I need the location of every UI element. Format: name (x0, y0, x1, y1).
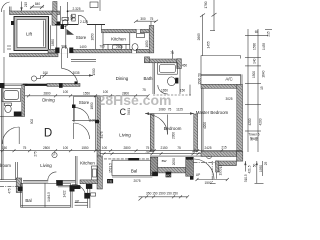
door leaf bath D (77, 15, 79, 24)
svg-text:150: 150 (180, 89, 186, 93)
wall hatched segment right (47, 83, 80, 86)
door leaf upper (73, 108, 75, 122)
bathtub C inner (159, 64, 175, 72)
stair right post black blocks (186, 157, 193, 160)
bath C (top) left wall (129, 33, 131, 49)
svg-text:Tower 6: Tower 6 (248, 133, 259, 137)
dim tick x214 (212, 13, 217, 17)
dim line y153.7 (100, 153, 232, 155)
svg-text:WO: WO (166, 173, 172, 177)
bay window L corner (216, 161, 219, 172)
svg-text:1550: 1550 (81, 146, 88, 150)
svg-text:Living: Living (40, 163, 52, 168)
kitchen D left wall (75, 156, 77, 185)
dim ticks mid (27, 94, 150, 97)
svg-text:1650: 1650 (91, 33, 95, 40)
post at balcony D door (56, 181, 63, 186)
bath D WC tank (5, 103, 12, 106)
svg-text:UP: UP (75, 200, 79, 204)
balcony D right edge (70, 183, 72, 207)
dim line vertical x202.5 top-right (202, 15, 204, 57)
right wall lower stub (237, 152, 243, 162)
svg-text:Master Bedroom: Master Bedroom (196, 110, 229, 115)
store D corner post (75, 81, 78, 84)
wire corridor line b right of lift (56, 25, 58, 47)
centerline dash-dot stair (194, 162, 231, 164)
svg-text:350 150 1500 150 250: 350 150 1500 150 250 (146, 192, 178, 196)
junction dot (67, 10, 69, 12)
bedroom C door leaf (167, 115, 169, 135)
kitchen door arc (73, 184, 86, 196)
store top room: posts at left (61, 25, 65, 29)
svg-text:Kitchen: Kitchen (80, 160, 95, 165)
svg-text:75: 75 (150, 17, 154, 21)
store left wall (65, 25, 67, 49)
svg-text:421.5: 421.5 (248, 165, 252, 173)
dark box above stair D (86, 184, 92, 189)
right bottom dim lines (244, 161, 246, 172)
stair D right wall (87, 184, 89, 208)
svg-text:F: F (54, 153, 56, 157)
svg-text:310.5: 310.5 (244, 174, 248, 182)
svg-text:15: 15 (260, 86, 264, 90)
svg-text:2665: 2665 (197, 33, 201, 40)
WO black box (166, 172, 172, 178)
store bottom left wall (73, 96, 75, 121)
AC room left wall (200, 56, 202, 85)
svg-text:第6座: 第6座 (250, 136, 259, 141)
stair D treads (75, 202, 88, 204)
corridor wall right (101, 25, 103, 30)
svg-text:1500: 1500 (92, 68, 96, 75)
dim tick 300/75 right (154, 20, 158, 23)
svg-text:1950: 1950 (259, 165, 263, 172)
svg-text:1850: 1850 (51, 39, 55, 46)
svg-text:215: 215 (24, 2, 28, 8)
door tag circle (31, 76, 36, 81)
door arc bath D (78, 15, 87, 24)
curved stair arc (194, 159, 214, 179)
svg-text:4200: 4200 (248, 118, 252, 125)
grid bubble F (52, 152, 57, 157)
lift shaft outer wall (14, 17, 49, 51)
store bottom top wall (74, 95, 97, 97)
stair left post hatched (150, 157, 158, 175)
kitchen top wall hatched (102, 29, 154, 32)
bedroom D window wall bottom (0, 179, 17, 181)
wire left edge vertical line (3, 10, 5, 53)
svg-text:2.325: 2.325 (73, 7, 81, 11)
svg-text:450: 450 (182, 64, 188, 68)
svg-text:1950: 1950 (219, 168, 223, 175)
door arc lower (living C) (74, 123, 90, 139)
right dim column line 1 (247, 29, 249, 152)
svg-text:4200: 4200 (259, 118, 263, 125)
svg-text:840: 840 (35, 2, 41, 6)
tick marks lift bottom left (7, 45, 11, 47)
bottom dim line (143, 196, 188, 198)
dim ticks bottom (1, 149, 223, 152)
kitchen-bath door gap in top band (136, 29, 140, 33)
right dim column line 2 (257, 29, 259, 152)
wire bath D dim line (67, 2, 69, 24)
svg-text:1500: 1500 (252, 71, 256, 78)
AC room top wall double (201, 73, 241, 75)
kitchen posts L (70, 186, 75, 192)
door arc upper (store) (74, 108, 89, 122)
svg-text:2600: 2600 (116, 45, 123, 49)
svg-text:1650: 1650 (145, 40, 149, 47)
svg-text:900: 900 (61, 45, 67, 49)
dim arrow tick (43, 73, 47, 77)
svg-text:50: 50 (252, 164, 256, 168)
svg-text:2050: 2050 (172, 158, 176, 165)
door arc bedroom D (2, 127, 19, 144)
bath D WC bowl (5, 105, 11, 113)
wall hatched top of lift (10, 11, 60, 15)
door leaf bedroom D (18, 127, 20, 144)
centerline vertical bay (211, 161, 213, 183)
svg-text:1780: 1780 (204, 1, 208, 8)
svg-text:3475: 3475 (100, 131, 104, 138)
right dim ticks (245, 30, 272, 132)
svg-text:1400: 1400 (79, 45, 86, 49)
grid bubble G (206, 153, 211, 158)
balcony C bottom rail (112, 176, 152, 178)
svg-text:700: 700 (99, 45, 105, 49)
stair strip hatched (158, 167, 186, 173)
kitchen D bottom wall (58, 184, 80, 186)
svg-text:100: 100 (102, 146, 108, 150)
balcony D door gap (48, 180, 56, 183)
svg-text:2425: 2425 (204, 146, 211, 150)
svg-text:UP: UP (196, 173, 200, 177)
svg-text:1580: 1580 (252, 43, 256, 50)
svg-text:75: 75 (168, 108, 172, 112)
living D bottom window (23, 179, 76, 181)
balcony D top rail (21, 182, 71, 184)
stair right post hatched (186, 157, 194, 176)
bay window sill line (219, 164, 237, 166)
bath C door arc (158, 85, 168, 94)
stair left post black block (152, 172, 158, 177)
bath C main: top wall hatched (145, 59, 181, 63)
bedroom C right wall hatched (194, 114, 198, 152)
WC C bowl (168, 77, 176, 86)
svg-text:Bedroom: Bedroom (164, 126, 182, 131)
svg-text:Store: Store (76, 35, 87, 40)
svg-text:1550: 1550 (83, 91, 90, 95)
svg-text:Dining: Dining (116, 76, 129, 81)
bath D top: vent rect (90, 2, 98, 8)
post black left (18, 187, 23, 191)
svg-text:150: 150 (2, 146, 8, 150)
wall segment right of bath (189, 85, 191, 96)
wall hatched kitchen right column lower (97, 156, 102, 189)
bath D right wall hatched (22, 85, 25, 117)
lift shaft inner wall (17, 20, 46, 48)
svg-text:215: 215 (221, 146, 227, 150)
AC bottom wall hatched (201, 84, 241, 88)
wire store wall left line (95, 96, 97, 150)
bedroom D window wall vertical (15, 162, 17, 180)
kitchen counter line (103, 43, 130, 45)
store right wall (95, 25, 97, 49)
balcony D divider (44, 183, 46, 207)
kitchen counter divider b (125, 44, 127, 49)
drain box (91, 193, 96, 196)
wall hatched vertical right of bath C (149, 26, 154, 53)
wall hatched left balcony post (16, 178, 21, 193)
svg-text:Kitchen: Kitchen (111, 37, 126, 42)
post right of door dim (95, 120, 99, 123)
entrance gap white in band (60, 49, 70, 53)
lift inner rail line (43, 21, 45, 47)
tick at centerline bottom (210, 182, 216, 184)
entrance arch door (62, 47, 68, 58)
dim line horizontal y7 (30, 6, 44, 8)
kitchen sink (113, 45, 122, 49)
master bedroom left wall (201, 88, 203, 151)
bath C main: right wall hatched (177, 59, 182, 69)
wire corridor line a right of lift (49, 25, 51, 49)
svg-text:A/C: A/C (225, 76, 232, 81)
svg-text:Dining: Dining (42, 97, 55, 102)
dim tick horizontal y30.5 (210, 30, 215, 32)
post stair D (84, 193, 90, 199)
bath C sink counter (137, 34, 145, 38)
svg-text:75: 75 (145, 150, 149, 154)
svg-text:75: 75 (177, 146, 181, 150)
door triangle store (67, 29, 75, 35)
svg-text:3025: 3025 (225, 97, 232, 101)
WC bath D tank (62, 18, 69, 21)
dim line vertical x100 (99, 0, 101, 11)
lift shaft wall band gray (14, 17, 49, 51)
balcony C outline (112, 160, 152, 175)
dim ticks y153.7 (103, 152, 234, 155)
svg-text:300: 300 (140, 17, 146, 21)
bath C main: corner wall vertical (145, 57, 150, 63)
svg-text:5491: 5491 (127, 108, 131, 115)
svg-text:2800: 2800 (43, 91, 50, 95)
svg-text:D: D (44, 128, 52, 140)
WC bath D bowl (62, 20, 68, 27)
wall bath D bottom (0, 115, 22, 117)
wall hatched store right column (97, 96, 100, 156)
svg-text:75: 75 (170, 51, 174, 55)
bath C main: right wall thin lower (179, 69, 181, 95)
WC C tank (175, 78, 178, 84)
svg-text:T/D: T/D (108, 179, 112, 183)
dim line vertical x214 (213, 0, 215, 31)
wall hatched below lift (10, 53, 59, 56)
dim line vertical x21.5 (21, 2, 23, 12)
svg-text:1850: 1850 (90, 102, 94, 109)
stair tread line (215, 161, 217, 179)
T/D black box (107, 179, 113, 183)
bottom right tick (255, 182, 264, 184)
svg-text:475: 475 (8, 188, 12, 194)
dim line 300/75 (136, 20, 156, 22)
door tag line (37, 78, 41, 80)
wire vertical x172.6 above bath (172, 50, 174, 59)
wall dining D to store black (23, 84, 47, 86)
right outer wall hatched (237, 84, 243, 151)
unit D left outer wall (3, 57, 5, 84)
dim line under 2.325 (69, 10, 85, 12)
bath D left wall (1, 86, 3, 180)
wall below bath D (top of store) left part (55, 23, 78, 25)
svg-text:BW: BW (162, 159, 167, 163)
balcony D rail left (20, 183, 22, 207)
svg-text:2800: 2800 (123, 146, 130, 150)
wall below bath D right part (87, 23, 105, 25)
centerline dash-dot left (0, 186, 19, 188)
post at left edge (0, 83, 5, 88)
svg-text:2150: 2150 (160, 146, 167, 150)
bay window master: hatched band 2 (216, 161, 237, 165)
svg-text:2800: 2800 (43, 146, 50, 150)
corridor dashed line (153, 94, 191, 96)
bottom dim ticks (145, 195, 189, 198)
svg-text:1125: 1125 (176, 108, 183, 112)
bay window master: hatched band 1 (201, 152, 237, 157)
svg-text:2075: 2075 (133, 179, 140, 183)
bedroom C left wall hatched (150, 114, 154, 152)
wire bath D inner line (59, 6, 61, 24)
svg-text:Bedroom: Bedroom (0, 163, 11, 168)
svg-text:902: 902 (30, 119, 34, 125)
svg-text:140: 140 (252, 58, 256, 64)
wall hatched right of lift vertical (52, 11, 57, 25)
entrance door arc (62, 68, 79, 86)
door leaf lower (73, 123, 75, 139)
svg-text:4200: 4200 (203, 122, 207, 129)
bedroom C door arc (148, 115, 168, 135)
svg-text:Store: Store (79, 100, 90, 105)
svg-text:28Hse.com: 28Hse.com (98, 92, 172, 108)
svg-text:1500 50: 1500 50 (198, 73, 202, 85)
stair D left edge (71, 184, 73, 208)
stub lines above band (8, 7, 10, 12)
kitchen left wall (102, 33, 104, 50)
unit D dining window wall (0, 83, 28, 85)
svg-text:1435: 1435 (262, 43, 266, 50)
wire line y156.1 (150, 155, 201, 157)
svg-text:1500: 1500 (204, 181, 211, 185)
dim line mid y95.8 (25, 95, 148, 97)
svg-text:Lift: Lift (26, 32, 33, 37)
svg-text:100: 100 (63, 90, 69, 94)
bath D tub (2, 89, 21, 102)
dim line 1500 (197, 179, 227, 181)
svg-text:2300: 2300 (172, 132, 176, 139)
post dark at x59 (59, 83, 63, 88)
bath C main: left wall (152, 63, 154, 94)
bay window band dark (128, 158, 139, 161)
svg-text:275: 275 (34, 151, 38, 157)
dim tick (30, 5, 34, 9)
svg-text:25: 25 (264, 162, 268, 166)
entrance door leaf (61, 58, 63, 68)
post under bath D (14, 112, 21, 117)
svg-text:215: 215 (267, 31, 271, 37)
svg-text:Bal: Bal (25, 198, 31, 203)
svg-text:1080: 1080 (158, 108, 165, 112)
dim line bottom y150.7 (0, 150, 242, 152)
post bath D bottom (57, 22, 61, 26)
wall hatched under store+kitchen (48, 49, 150, 53)
bathtub C outer (158, 63, 178, 74)
dim tick 300/75 left (134, 20, 138, 23)
svg-text:1455: 1455 (207, 41, 211, 48)
svg-text:C: C (120, 107, 127, 117)
kitchen bottom wall hatched (80, 180, 98, 184)
svg-text:3035: 3035 (72, 71, 79, 75)
balcony D bottom rail (21, 205, 71, 207)
bath C door gap in band (132, 49, 137, 53)
svg-text:Bath: Bath (143, 76, 153, 81)
dim ticks 1500 (196, 178, 199, 181)
post top of door (72, 105, 76, 109)
svg-text:1640: 1640 (262, 70, 266, 77)
svg-text:Living: Living (119, 132, 131, 137)
door swing arc at top-left plan edge (1, 2, 9, 12)
svg-text:1422: 1422 (63, 190, 67, 197)
wall hatched vertical between lift and bath D (53, 2, 57, 12)
wire vertical x151 (150, 21, 152, 29)
unit C top boundary line (201, 55, 241, 57)
svg-text:100: 100 (63, 146, 69, 150)
bath C WC (132, 44, 138, 51)
svg-text:1446.5: 1446.5 (47, 192, 51, 202)
corridor top wall double (71, 59, 96, 61)
svg-text:75: 75 (23, 146, 27, 150)
bottom dim arrow (139, 197, 143, 201)
bedroom C door dim line (145, 113, 194, 115)
store door dim line (72, 120, 97, 122)
kitchen D counter (92, 166, 98, 183)
dim line y75.4 with bend (41, 75, 93, 78)
svg-text:Bal: Bal (131, 169, 137, 174)
entrance door posts (55, 48, 59, 53)
svg-text:2.125: 2.125 (80, 20, 88, 24)
right outer wall upper thin (240, 74, 242, 84)
kitchen D stove (93, 169, 97, 177)
balcony D door arc (48, 172, 57, 181)
dim arrow ticks bottom right (244, 162, 258, 166)
shower boxes bath D (72, 14, 76, 17)
kitchen counter divider a (107, 44, 109, 49)
balcony C top chain line (104, 158, 152, 160)
dim tick x202.5 (200, 14, 205, 18)
svg-text:65: 65 (255, 30, 259, 34)
post left of lift (11, 21, 14, 25)
